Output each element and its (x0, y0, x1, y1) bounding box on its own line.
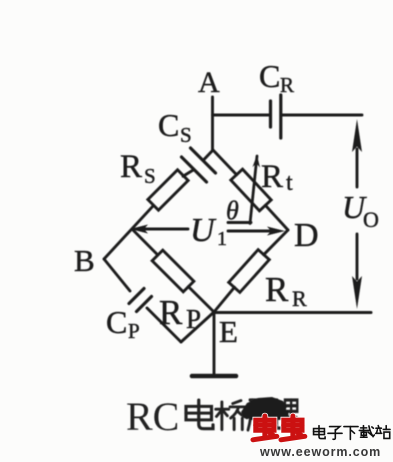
svg-text:P: P (128, 319, 140, 343)
svg-text:θ: θ (226, 196, 239, 225)
svg-text:A: A (198, 66, 220, 99)
svg-text:D: D (294, 217, 319, 254)
svg-text:R: R (159, 293, 183, 332)
svg-text:U: U (190, 212, 217, 249)
svg-text:t: t (286, 170, 293, 196)
svg-text:1: 1 (217, 228, 227, 250)
svg-text:S: S (144, 164, 156, 188)
svg-text:E: E (219, 314, 238, 349)
svg-text:P: P (186, 304, 201, 334)
svg-text:O: O (363, 207, 379, 232)
svg-text:R: R (292, 286, 307, 311)
svg-text:R: R (261, 159, 283, 195)
svg-text:C: C (259, 58, 280, 94)
svg-text:C: C (106, 304, 127, 340)
svg-text:www.eeworm.com: www.eeworm.com (259, 445, 381, 457)
svg-text:R: R (265, 270, 289, 309)
svg-text:R: R (120, 149, 142, 185)
svg-text:C: C (158, 107, 179, 143)
svg-text:B: B (74, 243, 95, 278)
svg-text:R: R (280, 73, 294, 97)
svg-text:RC: RC (126, 394, 179, 439)
svg-text:S: S (180, 123, 192, 147)
